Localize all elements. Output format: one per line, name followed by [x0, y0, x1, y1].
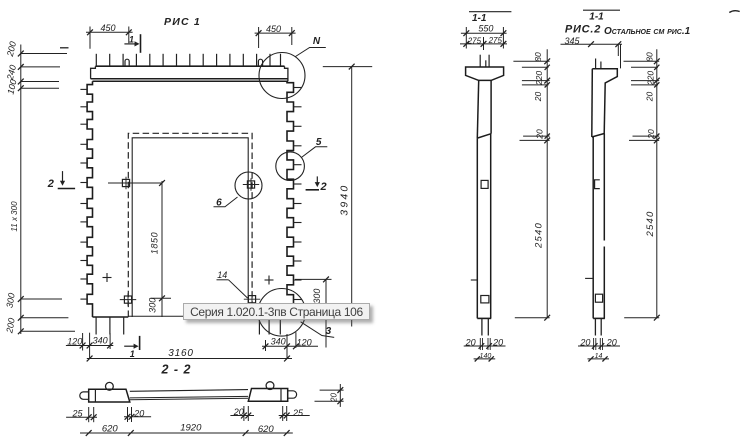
- svg-text:20: 20: [534, 129, 544, 140]
- svg-text:2: 2: [47, 178, 54, 190]
- left end tab: [80, 392, 89, 399]
- svg-text:220: 220: [534, 71, 544, 86]
- right column key whiskers: [294, 87, 302, 89]
- column 2 right dimension stack: [656, 49, 658, 318]
- svg-text:20: 20: [533, 92, 543, 103]
- stray scan mark top right: [729, 11, 739, 13]
- column 2 base dowels: [594, 318, 596, 335]
- column 2 channel mark: [595, 180, 600, 189]
- dimension 3940: [351, 67, 353, 327]
- detail circle 3: [258, 289, 306, 337]
- svg-text:3940: 3940: [339, 184, 351, 216]
- column 1 shaft upper: [477, 80, 478, 138]
- column 2 rebar dowels top: [595, 59, 597, 69]
- left column key whiskers: [80, 88, 87, 90]
- svg-text:340: 340: [271, 337, 286, 347]
- leader 6: [214, 197, 238, 207]
- svg-text:80: 80: [645, 52, 655, 62]
- svg-text:Остальное см рис.1: Остальное см рис.1: [604, 26, 691, 37]
- embed plate left bottom: [124, 296, 131, 303]
- svg-text:220: 220: [646, 71, 656, 86]
- beam soffit line upper: [91, 78, 288, 80]
- svg-text:2540: 2540: [534, 222, 545, 249]
- column 1 capital: [466, 67, 504, 80]
- svg-text:2540: 2540: [645, 211, 656, 238]
- column 1 splice break line: [477, 134, 491, 138]
- right leg bottom edge: [252, 316, 287, 318]
- svg-text:N: N: [313, 36, 321, 47]
- left dim extension 300 level: [21, 298, 62, 300]
- svg-text:14: 14: [217, 270, 227, 280]
- svg-text:450: 450: [266, 24, 281, 34]
- column 1 rebar dowels top: [479, 55, 481, 67]
- dimension 1850 vertical line: [161, 181, 163, 317]
- column 1 2540 base extension: [515, 317, 550, 319]
- svg-text:200: 200: [4, 317, 17, 335]
- leader N: [296, 48, 326, 57]
- left dim extension bottom level: [21, 317, 69, 319]
- column 2 shaft upper: [591, 69, 594, 137]
- svg-text:2: 2: [320, 181, 327, 193]
- lifting loop right: [258, 59, 262, 66]
- column 2 opening square lower: [595, 294, 602, 302]
- svg-text:300: 300: [4, 292, 16, 309]
- svg-text:РИС 1: РИС 1: [164, 16, 201, 28]
- column 1 shaft lower: [476, 138, 478, 318]
- left leg rebar dowels: [95, 317, 97, 335]
- section 2-2 thickness dimension: [339, 384, 341, 407]
- column 1 opening square lower: [481, 296, 489, 303]
- svg-text:20: 20: [329, 393, 338, 403]
- leader 3: [301, 322, 335, 338]
- right end tab: [288, 391, 297, 398]
- left dim extension 200 top: [21, 53, 67, 55]
- section mark 1 bottom: [139, 336, 141, 350]
- svg-text:6: 6: [216, 197, 222, 208]
- embed plate left mid: [122, 179, 129, 186]
- svg-text:550: 550: [478, 23, 493, 33]
- svg-text:20: 20: [646, 129, 656, 140]
- left dim extension ledge: [21, 87, 59, 89]
- lifting loop left: [125, 59, 129, 66]
- column 1 base line: [477, 317, 491, 319]
- svg-text:1-1: 1-1: [589, 12, 604, 23]
- label 1-1 right column: [583, 9, 620, 11]
- column 2 splice break line: [592, 134, 604, 138]
- dimension 300 right: [325, 279, 327, 347]
- left column toothed edge: [87, 81, 92, 317]
- beam right end cap: [285, 66, 288, 81]
- svg-text:5: 5: [316, 137, 322, 148]
- svg-text:300: 300: [148, 298, 158, 313]
- svg-text:200: 200: [5, 40, 18, 58]
- svg-text:3: 3: [326, 326, 332, 337]
- right leg rebar dowels: [258, 317, 260, 335]
- column 1 opening square upper: [481, 180, 488, 188]
- column 2 shaft lower: [592, 137, 594, 318]
- section 2-2 right end block: [248, 389, 287, 402]
- beam left end cap: [91, 66, 96, 79]
- svg-text:1850: 1850: [150, 232, 160, 254]
- section 2-2 left end block: [89, 389, 130, 402]
- svg-text:450: 450: [100, 23, 115, 33]
- left leg bottom edge: [93, 316, 129, 318]
- svg-text:25: 25: [292, 408, 304, 418]
- embed plate right bottom: [248, 296, 255, 303]
- left lifting loop circle: [106, 382, 114, 390]
- column 1 right dimension stack: [546, 49, 548, 318]
- opening dashed outline: [128, 133, 252, 317]
- stray mark left of 450 dim: [60, 47, 69, 49]
- section 2-2 bottom dimension line: [80, 432, 293, 434]
- beam top chord: [95, 65, 284, 67]
- svg-text:1: 1: [129, 34, 134, 44]
- column 2 capital corbel: [592, 69, 617, 83]
- svg-text:100: 100: [6, 78, 19, 95]
- left dim extension beam soffit: [21, 81, 59, 83]
- section 2-2 web bar: [130, 390, 248, 392]
- column 2 side whisker: [585, 277, 593, 279]
- svg-text:3160: 3160: [168, 348, 193, 359]
- left dim extension base level: [21, 330, 75, 332]
- svg-text:300: 300: [312, 289, 322, 304]
- svg-text:20: 20: [645, 92, 655, 103]
- column 2 base line: [593, 317, 605, 319]
- leader 5: [301, 147, 327, 158]
- section mark 2 left: [62, 171, 64, 183]
- svg-text:340: 340: [93, 336, 108, 346]
- detail circle N: [259, 53, 305, 99]
- svg-text:РИС.2: РИС.2: [565, 24, 601, 36]
- svg-text:1: 1: [130, 349, 135, 359]
- section mark 2 right: [316, 176, 318, 184]
- column 2 2540 base extension: [624, 317, 659, 319]
- embed plate right mid (detail 6): [247, 181, 254, 188]
- beam soffit line lower: [93, 80, 288, 82]
- svg-text:1920: 1920: [180, 423, 202, 434]
- svg-text:2 - 2: 2 - 2: [160, 363, 191, 377]
- label 1-1 left column: [469, 11, 511, 13]
- left dimension chain line: [20, 45, 22, 335]
- cross mark left: [103, 277, 112, 279]
- tooltip Серия 1.020.1-3пв Страница 106: [183, 303, 371, 321]
- detail circle 6: [235, 172, 262, 199]
- detail circle 5: [276, 152, 305, 181]
- opening inner solid outline: [132, 138, 248, 317]
- section mark 1 top: [140, 34, 142, 53]
- beam rebar dowels: [95, 54, 97, 66]
- right lifting loop circle: [266, 382, 274, 390]
- column 1 side whisker: [471, 279, 478, 281]
- cross mark right: [265, 279, 274, 281]
- right column toothed edge: [287, 81, 294, 317]
- opening bottom reference line: [128, 315, 252, 317]
- svg-text:11 x 300: 11 x 300: [10, 201, 19, 232]
- svg-text:80: 80: [533, 52, 543, 62]
- left dim extension panel top: [21, 66, 60, 68]
- column 1 base dowels: [481, 318, 483, 335]
